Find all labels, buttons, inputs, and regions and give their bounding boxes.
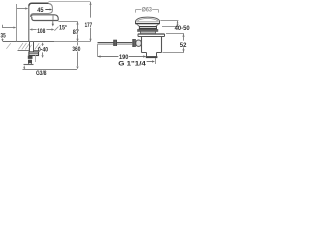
flange ring (137, 29, 158, 31)
wire (49, 1, 91, 3)
mounting deck top line (3, 41, 54, 43)
svg-text:G3/8: G3/8 (36, 70, 47, 77)
dimension line 45 inner (45, 9, 50, 11)
svg-text:15°: 15° (59, 26, 68, 32)
fixing nut (29, 52, 39, 56)
svg-text:0-40: 0-40 (38, 47, 48, 54)
leader 15 deg (54, 27, 58, 31)
faucet handle lever outline (31, 3, 53, 16)
extension line outlet level (58, 21, 77, 23)
waste body flange (138, 33, 165, 35)
faucet body left edge (28, 5, 30, 42)
pop-up rod (98, 42, 133, 44)
svg-text:G 1"1/4: G 1"1/4 (118, 60, 146, 67)
leader to tailpipe thread (147, 61, 153, 63)
svg-text:45: 45 (37, 7, 44, 14)
hose end stubs (28, 63, 30, 64)
hose line faint (35, 55, 37, 62)
svg-text:360: 360 (72, 46, 80, 53)
dimension 177 vertical (90, 2, 92, 18)
svg-text:87: 87 (73, 29, 80, 36)
tick left wall (2, 25, 4, 28)
threaded shank below deck (29, 42, 31, 52)
aerator inner line (52, 15, 54, 20)
dimension shaft down to deck (2, 38, 4, 41)
arrow up to hose end (23, 65, 25, 68)
svg-text:35: 35 (1, 32, 7, 39)
ball joint (136, 40, 142, 46)
waste body (141, 37, 143, 53)
seal ring band (139, 26, 141, 29)
hose end level line (24, 64, 34, 66)
cap neck taper (137, 24, 140, 26)
plug cap rim (135, 21, 137, 24)
tailpipe (146, 53, 148, 57)
svg-text:Ø63: Ø63 (142, 7, 153, 13)
dimension 40-50 small (160, 20, 178, 22)
ball joint nut (132, 39, 136, 47)
dimension 108 horizontal (29, 28, 32, 30)
deck hatching (6, 43, 40, 49)
extension line tall left (16, 4, 18, 41)
spout arm top edge (31, 15, 58, 21)
bottom reference line (23, 69, 78, 71)
dimension line left small (3, 27, 15, 29)
faucet handle lever top edge (29, 3, 49, 6)
dimension 87 vertical (77, 22, 79, 30)
dimension D63 top (136, 10, 159, 13)
flow arrow at outlet (52, 21, 54, 24)
hose fitting lower (28, 60, 32, 64)
svg-text:108: 108 (37, 28, 46, 35)
dimension 360 shaft below deck (77, 42, 79, 45)
dimension 0-40 (42, 42, 44, 45)
dimension 52 right (166, 33, 184, 35)
rod end extension line (97, 44, 99, 56)
mounting deck bottom line (18, 50, 30, 52)
svg-text:40-50: 40-50 (175, 25, 190, 32)
hose fitting upper (28, 56, 33, 59)
svg-text:52: 52 (180, 42, 187, 49)
plug cap dome (136, 17, 160, 21)
lower ring (140, 31, 142, 33)
dimension 190 (98, 56, 119, 58)
dimension arrow 45 outer left (17, 8, 27, 10)
svg-text:177: 177 (85, 22, 93, 29)
spout arm bottom edge (32, 17, 58, 21)
rod adjuster nut (113, 40, 117, 46)
